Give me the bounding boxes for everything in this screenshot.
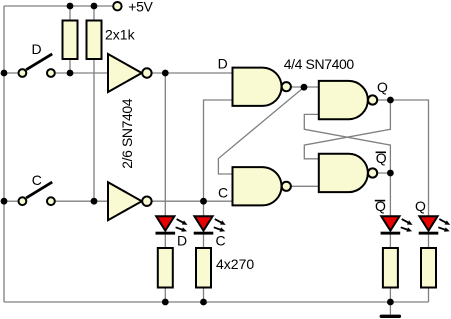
wire: R2 bottom lead down to wire C [93,59,95,201]
junction: R1 node D-switch [67,70,74,77]
junction: rail LED C [200,299,207,306]
resistor R4 (LED C) [196,248,211,288]
svg-text:C: C [32,172,42,188]
wire: node Q-bar to LED Q-bar [377,173,390,217]
junction: left rail switch C [1,198,8,205]
svg-text:D: D [177,232,187,248]
junction: left rail switch D [1,70,8,77]
wire: node D tap down to LED D [164,73,166,217]
junction: node Q-bar [387,170,394,177]
wire: LED D to resistor R3 and rail [164,234,166,302]
wire: R1 top lead [69,6,71,21]
switch C [19,172,55,205]
wire: switch C to inverter U2 input [56,200,109,202]
ground [380,315,402,318]
resistor R5 (LED Q-bar) [383,248,398,288]
junction: top rail R2 [91,3,98,10]
NAND gate G4 (Q-bar output) [319,154,377,192]
svg-text:D: D [32,41,42,57]
wire: node Q to LED Q [377,100,428,217]
junction: node C LED tap [200,198,207,205]
resistor R2 [87,21,102,60]
wire: ground stub [389,302,391,315]
wire: LED Q-bar to resistor R5 and rail [389,234,391,302]
NAND gate G2 [233,167,291,205]
wire: LED C to resistor R4 and rail [203,234,205,302]
wire: Q feedback cross to NAND G4 upper input [304,100,390,159]
node label Q-bar [376,150,387,166]
svg-text:D: D [218,56,228,72]
wire: node C vertical to NAND G1 lower input and LED C [204,100,233,217]
junction: R2 wire C [91,198,98,205]
wire: bottom ground rail [4,301,429,303]
wire: NAND G1 output to NAND G3 input [291,86,319,88]
svg-text:Q: Q [415,198,426,214]
svg-text:+5V: +5V [128,0,153,14]
+5V terminal [113,0,153,14]
inverter U1B [108,182,152,220]
switch D [19,41,55,77]
resistor R6 (LED Q) [421,248,436,288]
wire: NAND G2 output to NAND G4 lower input [291,185,319,187]
LED Q indicator [415,198,450,234]
svg-text:Q: Q [377,79,388,95]
svg-text:4x270: 4x270 [216,256,254,272]
LED Q-bar indicator [375,198,413,234]
wire: NAND G1 output diagonal to NAND G2 upper input [218,87,304,174]
svg-text:2/6 SN7404: 2/6 SN7404 [119,98,135,169]
wire: R1 bottom lead to node D-switch [69,59,71,73]
wire: R2 top lead [93,6,95,21]
junction: node D LED tap [162,70,169,77]
junction: node Q [387,97,394,104]
wire: node C, inverter U2 output to NAND G2 input [152,200,233,202]
LED D [156,216,188,248]
wire: +5V top rail [4,5,112,7]
wire: LED Q to resistor R6 and rail [428,234,430,302]
resistor R1 [63,21,78,60]
wire: node D, inverter U1 output to NAND G1 input [152,72,233,74]
LED C [194,216,226,248]
resistor R3 (LED D) [158,248,173,288]
junction: NAND G1 output node [301,84,308,91]
wire: left rail [3,6,5,302]
wire: switch D to inverter U1 input [56,72,109,74]
junction: top rail R1 [67,3,74,10]
junction: rail LED D [162,299,169,306]
junction: rail ground [387,299,394,306]
wire: left rail to switch D [4,72,18,74]
wire: Q-bar feedback cross to NAND G3 lower input [304,114,390,173]
svg-text:4/4 SN7400: 4/4 SN7400 [284,56,355,72]
svg-text:C: C [216,232,226,248]
NAND gate G1 (D, C inputs) [233,68,291,106]
NAND gate G3 (Q output) [319,81,377,119]
svg-text:2x1k: 2x1k [105,27,136,43]
inverter U1A (2/6 SN7404) [108,54,152,92]
svg-text:C: C [218,185,228,201]
wire: left rail to switch C [4,200,18,202]
